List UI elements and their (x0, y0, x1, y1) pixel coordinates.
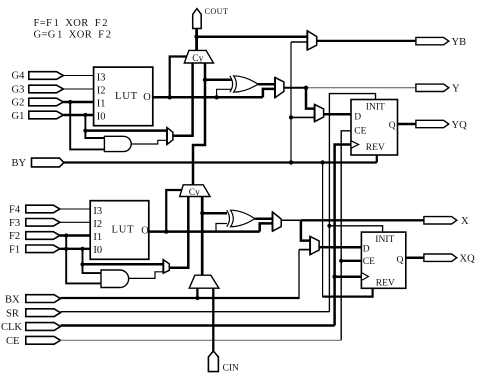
svg-text:REV: REV (366, 143, 385, 153)
wire muxXQ out to D (319, 246, 361, 249)
node F1 branch (80, 247, 84, 251)
wire mux DI G output (173, 63, 193, 136)
wire CLK line (60, 324, 334, 327)
node F2 cross F1 (64, 247, 68, 251)
node BY down (320, 160, 324, 164)
svg-text:LUT: LUT (112, 225, 135, 236)
node xor G in1 branch (203, 78, 207, 82)
wire BY to REV FFY (376, 155, 378, 163)
svg-text:X: X (461, 216, 469, 227)
wire O to xor F in2 (216, 224, 227, 232)
svg-text:I1: I1 (93, 232, 102, 243)
wire Y line (284, 87, 306, 89)
wire F3 to I2 (60, 221, 90, 223)
node BX to cin mux (195, 296, 199, 300)
node CLK branch FFX (332, 275, 336, 279)
svg-text:Y: Y (452, 84, 460, 95)
LUT F (90, 201, 149, 260)
node xor F in1 branch (200, 211, 204, 215)
svg-text:G4: G4 (12, 70, 26, 81)
xor gate F (227, 210, 255, 227)
wire G1 to mux DI in1 (85, 129, 167, 132)
svg-text:Q: Q (397, 256, 404, 266)
output pin X (424, 216, 469, 227)
LUT G (94, 67, 153, 126)
wire FFX Q to XQ (406, 256, 424, 259)
wire select to Cy G (170, 57, 188, 98)
node O select branch (168, 95, 172, 99)
wire BX to REV FFX (323, 288, 373, 296)
wire cin mux left leg to BX (196, 288, 198, 298)
and gate F (MULT_AND) (101, 270, 129, 288)
mux XQ (D input mux) (310, 236, 319, 254)
wire INIT to FFX (329, 226, 382, 232)
wire CE vertical (341, 131, 351, 340)
node COUT branch (194, 35, 198, 39)
svg-text:F1: F1 (9, 244, 20, 255)
node INIT branch to FFX (327, 224, 331, 228)
svg-text:G=G 1 XOR F 2: G=G 1 XOR F 2 (34, 30, 112, 41)
node F1 to mux (80, 262, 84, 266)
pin CIN (208, 351, 239, 373)
input pin CE (6, 336, 60, 347)
svg-text:I1: I1 (97, 99, 106, 110)
wire F2 branch down (66, 236, 101, 284)
svg-text:I3: I3 (93, 206, 102, 217)
node O select branch F (164, 229, 168, 233)
wire FFY Q to YQ (398, 123, 417, 126)
svg-text:I2: I2 (93, 219, 102, 230)
svg-text:G2: G2 (12, 98, 25, 109)
mux X (273, 212, 282, 231)
svg-text:CE: CE (363, 257, 375, 267)
node O xor branch (214, 95, 218, 99)
svg-text:F3: F3 (9, 218, 20, 229)
svg-text:D: D (363, 244, 370, 254)
wire mux DI F output (169, 197, 188, 268)
wire Y to muxYQ in1 (306, 88, 315, 109)
wire F1 to mux DI F in1 (83, 263, 164, 266)
wire O line G (153, 96, 263, 99)
wire select to Cy F (166, 190, 184, 232)
input pin G2 (12, 98, 64, 109)
svg-text:O: O (143, 92, 151, 103)
flip-flop FFY (351, 100, 398, 156)
wire X line (281, 219, 301, 221)
wire muxYQ out to D (324, 113, 351, 116)
wire BX vertical to muxXQ (299, 249, 310, 251)
wire F1 branch down (83, 249, 102, 273)
output pin YB (416, 37, 466, 48)
wire F1 to I0 (60, 248, 90, 250)
wire O line F (149, 230, 260, 233)
wire BY down to BX row (322, 163, 324, 298)
wire O to muxY in2 (263, 89, 275, 97)
input pin F1 (9, 244, 60, 255)
wire SR line (60, 311, 329, 313)
node BY muxline (289, 160, 293, 164)
svg-text:CE: CE (354, 126, 366, 136)
mux Y (275, 77, 284, 97)
wire O to xor G in2 (217, 89, 232, 97)
wire and G output (131, 140, 167, 144)
wire X to muxXQ in1 (301, 220, 310, 240)
node G2 branch (68, 100, 72, 104)
svg-text:COUT: COUT (205, 7, 229, 16)
input pin F2 (9, 231, 60, 242)
wire Cy G carry in leg (193, 63, 205, 185)
svg-text:LUT: LUT (115, 91, 138, 102)
output pin XQ (424, 254, 475, 265)
wire xor F out (255, 217, 273, 220)
svg-text:F4: F4 (9, 205, 21, 216)
output pin Y (416, 84, 460, 95)
wire G4 to I3 (63, 75, 93, 77)
wire CLK to FFX (335, 275, 362, 278)
input pin F3 (9, 218, 60, 229)
svg-text:I0: I0 (97, 112, 106, 123)
node Y branch (304, 86, 308, 90)
wire CE line (60, 339, 341, 341)
pin COUT (193, 7, 229, 29)
svg-text:F2: F2 (9, 231, 20, 242)
xor gate G (230, 76, 258, 92)
svg-text:Q: Q (389, 121, 396, 131)
mux DI F (163, 260, 169, 274)
wire G2 to I1 (63, 101, 93, 103)
mux YB (307, 31, 316, 50)
svg-text:INIT: INIT (366, 102, 385, 112)
wire F2 to I1 (60, 234, 90, 236)
svg-text:BX: BX (5, 294, 20, 305)
svg-text:SR: SR (6, 308, 19, 319)
wire YB out (317, 40, 416, 42)
wire Cy G carry out to COUT (195, 28, 198, 50)
svg-text:I3: I3 (97, 72, 106, 83)
svg-text:D: D (354, 113, 361, 123)
wire BY to muxYQ in2 (291, 116, 315, 118)
wire and F output (129, 272, 164, 279)
svg-text:G1: G1 (12, 111, 25, 122)
wire SR to INIT FFY (329, 94, 375, 312)
mux YQ (D input mux) (315, 104, 324, 121)
svg-text:Cy: Cy (189, 188, 200, 198)
node CE branch FFX (339, 259, 343, 263)
carry mux Cy G (184, 50, 213, 63)
wire BY line (64, 161, 377, 163)
svg-text:XQ: XQ (460, 254, 476, 265)
svg-text:I0: I0 (93, 245, 102, 256)
wire F4 to I3 (60, 208, 90, 210)
node G1 branch (83, 113, 87, 117)
mux DI G (167, 128, 173, 145)
wire to xor F in1 (202, 212, 227, 215)
svg-text:REV: REV (376, 278, 395, 288)
wire G3 to I2 (63, 88, 93, 90)
input pin BY (12, 158, 64, 169)
input pin BX (5, 294, 60, 305)
svg-text:YB: YB (452, 37, 467, 48)
svg-text:BY: BY (12, 158, 27, 169)
wire Cy F carry in leg (201, 197, 204, 276)
carry mux Cy F (180, 185, 210, 198)
mux left edge bars (306, 31, 308, 50)
input pin F4 (9, 205, 60, 216)
wire to xor G in1 (205, 79, 232, 82)
input pin G1 (12, 111, 64, 122)
flip-flop FFX (361, 232, 405, 288)
wire G1 branch down (85, 115, 104, 138)
input pin SR (6, 308, 60, 319)
node G1 to mux (83, 129, 87, 133)
input pin G3 (12, 84, 64, 95)
svg-text:F=F 1 XOR F 2: F=F 1 XOR F 2 (34, 18, 108, 29)
wire G1 to I0 (63, 114, 93, 116)
input pin CLK (1, 322, 60, 333)
svg-text:INIT: INIT (375, 235, 394, 245)
svg-text:Cy: Cy (192, 54, 203, 64)
carry-in select mux (189, 275, 219, 288)
wire xor G out (258, 83, 275, 86)
and gate G (MULT_AND) (104, 136, 131, 151)
svg-text:O: O (141, 226, 149, 237)
svg-text:YQ: YQ (452, 120, 468, 131)
wire COUT to YB mux (197, 35, 308, 38)
wire BX line (60, 297, 299, 299)
input pin G4 (12, 70, 64, 81)
node BY to muxYQ (289, 115, 293, 119)
svg-text:CLK: CLK (1, 322, 22, 333)
svg-text:G3: G3 (12, 84, 25, 95)
node F2 branch (64, 233, 68, 237)
wire O to muxX in2 (260, 223, 273, 231)
svg-text:CIN: CIN (223, 364, 240, 373)
svg-text:CE: CE (6, 336, 19, 347)
svg-text:I2: I2 (97, 86, 106, 97)
output pin YQ (416, 120, 467, 131)
wire G2 branch down (70, 102, 104, 149)
wire CLK vertical (335, 145, 351, 326)
wire CE to FFX (341, 260, 361, 262)
wire BY vertical (291, 41, 307, 43)
wire CIN up (212, 288, 214, 351)
